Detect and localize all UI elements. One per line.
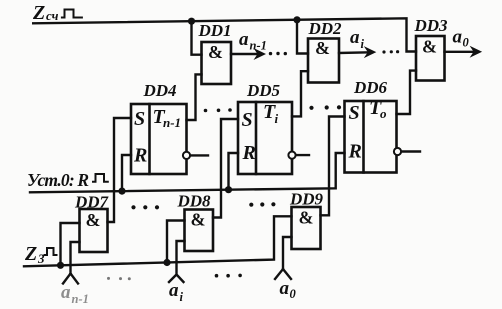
svg-text:Уст.0: R: Уст.0: R <box>27 170 89 190</box>
svg-text:Z: Z <box>32 2 45 24</box>
svg-text:S: S <box>349 102 360 124</box>
svg-text:DD7: DD7 <box>74 193 110 212</box>
svg-text:DD2: DD2 <box>307 19 342 38</box>
svg-text:&: & <box>299 208 314 228</box>
svg-text:a: a <box>453 27 463 48</box>
svg-text:DD6: DD6 <box>353 78 388 97</box>
svg-text:i: i <box>275 111 279 126</box>
svg-text:a: a <box>350 27 360 48</box>
svg-text:n-1: n-1 <box>250 39 267 53</box>
svg-text:R: R <box>133 145 147 167</box>
svg-text:DD1: DD1 <box>197 21 231 40</box>
svg-text:R: R <box>348 141 362 163</box>
svg-text:S: S <box>242 109 253 131</box>
svg-text:i: i <box>361 37 365 51</box>
svg-text:&: & <box>191 210 206 230</box>
svg-text:Z: Z <box>24 243 37 265</box>
svg-text:a: a <box>239 29 249 50</box>
svg-text:&: & <box>422 37 437 57</box>
svg-text:сч: сч <box>46 8 59 23</box>
svg-text:i: i <box>180 290 184 304</box>
svg-text:a: a <box>280 278 290 299</box>
svg-text:0: 0 <box>463 36 470 50</box>
svg-text:&: & <box>315 38 330 58</box>
svg-text:DD8: DD8 <box>176 192 211 211</box>
svg-text:DD4: DD4 <box>142 81 176 100</box>
svg-text:DD3: DD3 <box>413 16 448 35</box>
svg-text:0: 0 <box>290 287 297 301</box>
svg-text:n-1: n-1 <box>72 292 89 306</box>
svg-text:a: a <box>61 282 71 303</box>
svg-text:&: & <box>86 210 101 230</box>
svg-text:R: R <box>242 142 256 164</box>
svg-text:S: S <box>134 108 145 130</box>
svg-text:a: a <box>169 280 179 301</box>
svg-text:n-1: n-1 <box>163 115 181 130</box>
svg-text:o: o <box>380 106 387 121</box>
svg-text:3: 3 <box>37 251 45 266</box>
svg-text:&: & <box>208 42 223 62</box>
svg-text:DD9: DD9 <box>289 190 324 209</box>
svg-text:DD5: DD5 <box>246 81 281 100</box>
